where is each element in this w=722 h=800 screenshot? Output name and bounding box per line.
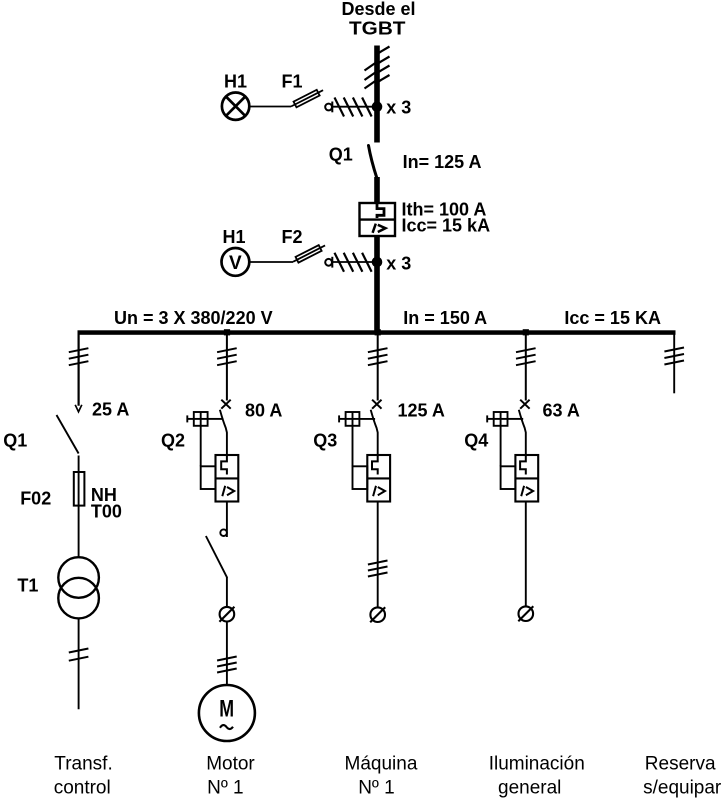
thermal release hook inside Q2 box xyxy=(221,455,227,475)
contact: fixed socket of lower switch (feeder 2) xyxy=(220,529,227,536)
magnetic release symbol I> inside U1 xyxy=(373,224,386,233)
breaker Q2: blade xyxy=(220,410,227,455)
node: busbar junction dot feeder 3 xyxy=(375,329,381,335)
release module (left box) of Q2 xyxy=(201,426,216,489)
outlet symbol (circle with slash) feeder 4 xyxy=(518,606,533,621)
svg-text:x 3: x 3 xyxy=(386,253,411,273)
breaker Q3: contact cross xyxy=(372,400,381,409)
svg-text:Reserva: Reserva xyxy=(645,754,716,775)
outlet symbol (circle with slash) feeder 3 xyxy=(370,607,385,622)
contact: fixed socket of F2 fuse-switch xyxy=(325,257,332,268)
hatch: feeder 1 conductor slashes xyxy=(69,348,89,365)
node A: tap junction dot (upper) xyxy=(372,101,383,112)
svg-text:Q1: Q1 xyxy=(329,145,353,165)
svg-text:Q3: Q3 xyxy=(313,431,337,451)
svg-text:63 A: 63 A xyxy=(543,401,580,421)
conductor count hatch on incoming feeder xyxy=(365,47,390,89)
svg-text:Q4: Q4 xyxy=(464,431,488,451)
switch Q1 (feeder disconnector blade, open) xyxy=(57,415,79,454)
switch Q1 (main disconnector blade, open) xyxy=(369,146,378,179)
wire: feeder 1 drop from busbar xyxy=(77,332,79,406)
wire: main feeder below breaker unit (thick) xyxy=(374,236,380,332)
voltmeter H1 xyxy=(222,248,250,276)
svg-text:T1: T1 xyxy=(17,576,38,596)
fuse F1 (open fuse-switch blade) xyxy=(290,87,325,109)
breaker U1: thermal-magnetic release unit box xyxy=(360,203,396,236)
thermal release element (hook) inside U1 xyxy=(377,203,384,218)
busbar: main distribution bar xyxy=(78,330,676,335)
breaker Q2: contact cross xyxy=(221,400,230,409)
wire: reserve feeder stub xyxy=(673,332,675,393)
wire: Q3 box to outlet xyxy=(377,502,379,623)
hatch: reserve feeder conductor slashes xyxy=(664,348,684,365)
svg-text:Icc = 15 KA: Icc = 15 KA xyxy=(564,308,661,328)
thermal release hook inside Q4 box xyxy=(520,455,526,475)
thermal release hook inside Q3 box xyxy=(372,455,378,475)
svg-text:M: M xyxy=(219,696,234,723)
svg-text:Nº 1: Nº 1 xyxy=(207,777,244,798)
wire: feeder 3 drop from busbar xyxy=(377,332,379,401)
lamp H1 (indicator light) xyxy=(222,93,249,120)
breaker Q4: release unit box xyxy=(515,455,538,502)
svg-text:general: general xyxy=(498,777,561,798)
svg-text:In= 125 A: In= 125 A xyxy=(403,152,482,172)
transformer T1 (two windings) xyxy=(58,557,99,618)
svg-text:Q1: Q1 xyxy=(3,431,27,451)
svg-text:Un = 3 X 380/220 V: Un = 3 X 380/220 V xyxy=(114,308,273,328)
wire: lower switch to motor xyxy=(226,577,228,685)
wire: incoming main feeder (thick) upper segment xyxy=(374,46,380,143)
svg-text:Nº 1: Nº 1 xyxy=(358,777,395,798)
svg-text:H1: H1 xyxy=(223,227,246,247)
svg-text:Q2: Q2 xyxy=(161,431,185,451)
svg-text:x 3: x 3 xyxy=(386,97,411,117)
release module (left box) of Q3 xyxy=(353,426,368,489)
wire: voltmeter to fuse F2 xyxy=(249,261,293,263)
breaker Q4: blade xyxy=(519,410,526,455)
svg-text:125 A: 125 A xyxy=(398,401,445,421)
wire: lamp to fuse F1 xyxy=(249,106,291,108)
svg-text:Iluminación: Iluminación xyxy=(489,754,585,775)
breaker Q4: contact cross xyxy=(520,400,529,409)
wire: feeder 2 drop from busbar xyxy=(226,332,228,401)
hatch: feeder 3 lower conductor slashes xyxy=(368,561,388,577)
svg-text:F2: F2 xyxy=(282,227,303,247)
wire: feeder 1 below transformer xyxy=(78,618,80,709)
svg-text:s/equipar: s/equipar xyxy=(643,777,722,798)
svg-text:TGBT: TGBT xyxy=(349,18,406,38)
hatch: upper tap conductor slashes xyxy=(335,98,372,117)
magnetic release I> inside Q3 box xyxy=(373,486,385,496)
svg-text:80 A: 80 A xyxy=(245,401,282,421)
wire: lower tap horizontal xyxy=(333,261,377,263)
svg-text:H1: H1 xyxy=(224,72,247,92)
svg-text:25 A: 25 A xyxy=(92,400,129,420)
svg-text:Icc= 15 kA: Icc= 15 kA xyxy=(402,216,491,236)
contact: fixed socket of F1 fuse-switch xyxy=(325,102,332,113)
svg-text:F1: F1 xyxy=(282,72,303,92)
motor M (circle with M ~) xyxy=(199,685,255,741)
fuse F02 (NH T00) xyxy=(74,472,85,506)
hatch: lower tap conductor slashes xyxy=(335,253,372,272)
breaker Q3: release unit box xyxy=(367,455,390,502)
contact: withdrawable arrow contact of Q1 xyxy=(75,405,82,412)
svg-text:F02: F02 xyxy=(20,489,51,509)
wire: upper tap horizontal xyxy=(333,106,377,108)
node: busbar junction dot feeder 4 xyxy=(523,329,529,335)
motor operator M1 (square with cross) of Q3 xyxy=(339,412,375,426)
wire: switch to fuse F02 xyxy=(78,456,80,558)
breaker Q2: release unit box xyxy=(216,455,239,502)
wire: Q2 box to lower contact xyxy=(226,502,228,538)
hatch: feeder 3 conductor slashes xyxy=(368,348,388,365)
magnetic release I> inside Q4 box xyxy=(521,486,533,496)
motor operator M1 (square with cross) of Q4 xyxy=(487,412,523,426)
magnetic release I> inside Q2 box xyxy=(222,486,234,496)
fuse F2 (open fuse-switch blade) xyxy=(292,243,327,265)
svg-text:control: control xyxy=(54,777,111,798)
svg-text:Desde el: Desde el xyxy=(341,0,415,19)
hatch: feeder 2 lower conductor slashes xyxy=(217,657,237,673)
wire: Q4 box to outlet xyxy=(525,502,527,622)
wire: feeder 4 drop from busbar xyxy=(525,332,527,401)
wire: main feeder between switch and breaker unit (thick) xyxy=(374,177,380,204)
svg-text:T00: T00 xyxy=(91,502,122,522)
outlet symbol (circle with slash) feeder 2 xyxy=(219,607,234,622)
node B: tap junction dot (lower) xyxy=(372,257,383,268)
switch: lower disconnector blade (feeder 2, open) xyxy=(206,536,227,578)
svg-text:In = 150 A: In = 150 A xyxy=(403,308,487,328)
motor operator M1 (square with cross) of Q2 xyxy=(187,412,223,426)
release module (left box) of Q4 xyxy=(501,426,516,489)
hatch: feeder 2 conductor slashes xyxy=(217,348,237,365)
hatch: feeder 1 lower conductor slashes (2) xyxy=(69,649,89,661)
hatch: feeder 4 conductor slashes xyxy=(516,348,536,365)
svg-text:Máquina: Máquina xyxy=(345,754,418,775)
node: busbar junction dot feeder 2 xyxy=(224,329,230,335)
breaker Q3: blade xyxy=(371,410,378,455)
svg-text:V: V xyxy=(229,253,242,274)
svg-text:Transf.: Transf. xyxy=(54,754,112,775)
svg-text:Motor: Motor xyxy=(206,754,255,775)
